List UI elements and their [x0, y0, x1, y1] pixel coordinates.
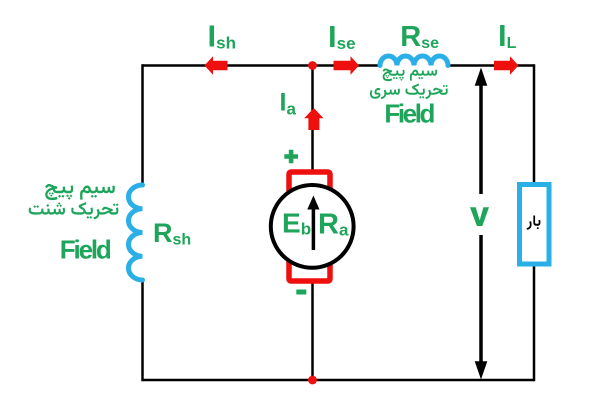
label Rsh [153, 218, 191, 249]
wire left upper [141, 64, 144, 185]
plus sign [284, 150, 298, 164]
label shunt field persian: seam pich [45, 184, 115, 200]
wire bottom [143, 379, 535, 382]
arrow inside motor (Eb direction) [307, 196, 319, 251]
label V [470, 207, 489, 226]
current arrow Ise (right) [334, 56, 360, 75]
label Ra [318, 209, 349, 241]
label IL [498, 18, 517, 53]
motor circle (armature) [271, 185, 354, 268]
inductor Rse series field coil [380, 56, 448, 66]
wire right upper [533, 64, 536, 182]
voltmeter arrow V upper segment [475, 68, 488, 195]
voltmeter arrow V lower segment [475, 235, 488, 380]
current arrow Ish (left) [205, 56, 228, 75]
label Field (series) [384, 99, 435, 129]
svg-text:Field: Field [60, 235, 112, 265]
current arrow Ia (up) [304, 108, 323, 130]
label Ia [280, 89, 297, 119]
label Ise [328, 19, 356, 54]
junction node bottom [308, 376, 317, 385]
wire right lower [533, 265, 536, 381]
label Eb [282, 208, 311, 239]
wire left lower [141, 280, 144, 381]
junction node top [308, 61, 317, 70]
load resistor box [520, 185, 550, 265]
label series field persian: tahrik seri [370, 84, 448, 100]
current arrow IL (right) [494, 56, 519, 75]
motor armature red rectangle [289, 172, 330, 281]
label Ish [208, 19, 236, 54]
label shunt field persian: tahrik shunt [29, 202, 119, 219]
label Rse [400, 21, 439, 53]
wire top left segment [143, 64, 381, 67]
label series field persian: seam pich [383, 69, 438, 82]
label Field (shunt) [60, 235, 112, 265]
wire top right segment [448, 64, 534, 67]
svg-text:Field: Field [384, 99, 435, 129]
minus sign [296, 290, 306, 295]
inductor Rsh shunt field coil [129, 185, 143, 280]
label bar (load) [527, 216, 541, 230]
wire center upper [311, 66, 314, 172]
wire center lower [311, 281, 314, 380]
